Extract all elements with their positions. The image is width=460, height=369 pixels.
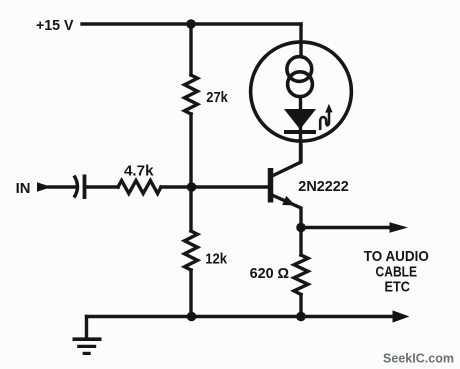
LED D1 cathode bar — [284, 130, 316, 134]
LED squiggle arrowhead — [325, 104, 332, 113]
wire R2 bottom to ground rail — [189, 270, 192, 317]
junction node ground rail right — [296, 312, 306, 322]
wire capacitor to R3 — [86, 185, 118, 188]
wire IN to capacitor — [49, 185, 76, 188]
junction node at emitter output — [296, 223, 306, 233]
wire R1 bottom to input node — [189, 114, 192, 187]
wire vertical left branch through R1/R2 column — [189, 24, 192, 75]
output arrowhead top — [390, 222, 409, 232]
svg-text:IN: IN — [16, 180, 31, 197]
emitter arrowhead of Q1 — [282, 196, 295, 206]
junction node at +15V rail — [186, 19, 196, 29]
svg-text:12k: 12k — [205, 251, 227, 268]
capacitor C1 straight plate — [83, 175, 87, 200]
svg-text:ETC: ETC — [384, 279, 410, 296]
svg-text:27k: 27k — [206, 89, 228, 106]
resistor R1 27k — [185, 75, 198, 114]
resistor R4 620 ohm — [294, 255, 308, 295]
output arrowhead bottom — [393, 310, 410, 322]
wire inside optocoupler — [299, 97, 302, 162]
wire output top line — [301, 226, 390, 229]
svg-text:+15 V: +15 V — [36, 17, 74, 34]
wire R4 bottom to ground rail — [299, 295, 302, 317]
svg-text:2N2222: 2N2222 — [298, 178, 349, 195]
current source symbol circle upper — [287, 57, 312, 82]
wire input node down to R2 — [189, 187, 192, 231]
ground lead — [85, 317, 88, 340]
wire +15V rail top — [82, 22, 301, 25]
svg-text:4.7k: 4.7k — [124, 163, 154, 180]
resistor R2 12k — [185, 231, 198, 270]
ground symbol bars — [73, 339, 102, 353]
resistor R3 4.7k — [118, 181, 161, 194]
svg-text:620 Ω: 620 Ω — [250, 265, 290, 282]
wire R3 to base of Q1 — [161, 185, 268, 188]
input arrow IN — [37, 182, 52, 192]
LED D1 triangle — [285, 110, 315, 129]
current source symbol circle lower — [288, 72, 313, 97]
capacitor C1 curved plate — [74, 176, 78, 198]
optocoupler U1 outer circle — [251, 42, 352, 141]
transistor Q1 collector lead — [272, 145, 301, 176]
transistor Q1 base bar — [268, 168, 274, 203]
junction node at base — [187, 182, 197, 192]
wire emitter node to R4 — [299, 228, 302, 256]
LED light squiggle arrow — [320, 113, 329, 131]
svg-text:SeekIC.com: SeekIC.com — [383, 352, 454, 366]
wire collector drop from rail into optocoupler — [299, 24, 302, 56]
wire ground rail bottom — [87, 315, 393, 318]
junction node ground rail left — [187, 312, 197, 322]
transistor Q1 emitter lead — [272, 195, 301, 228]
